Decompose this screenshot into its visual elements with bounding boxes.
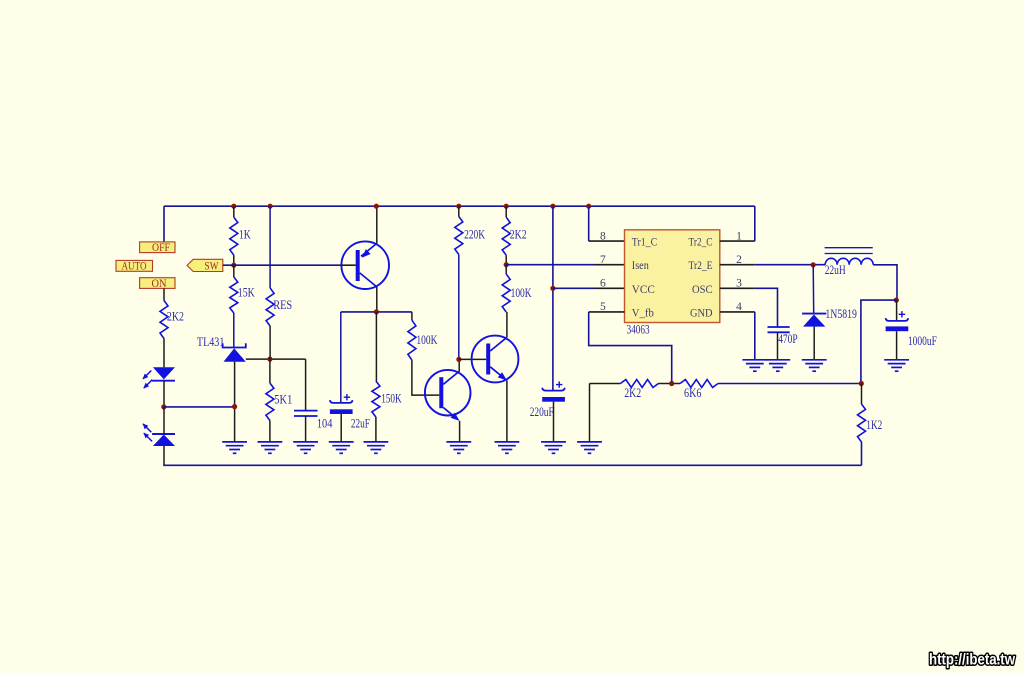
port label ON	[140, 278, 175, 289]
resistor 220K	[458, 206, 460, 216]
resistor 5K1	[269, 359, 271, 383]
junction dot Isen node	[504, 262, 509, 267]
wire Q2 collector up	[458, 359, 460, 371]
svg-text:http://ibeta.tw: http://ibeta.tw	[929, 652, 1016, 669]
wire node to D2	[163, 407, 165, 434]
wire node to Q3 base	[459, 358, 486, 360]
wire Q3 collector up	[506, 312, 508, 337]
resistor RES	[266, 288, 274, 326]
wire diode node down	[812, 265, 815, 314]
ground Q3	[495, 441, 520, 443]
wire D2 to bottom rail	[163, 446, 165, 465]
wire pin 6 stub	[595, 287, 625, 289]
svg-text:ON: ON	[152, 278, 168, 290]
svg-text:RES: RES	[273, 297, 292, 312]
ground 5K1	[258, 441, 283, 443]
svg-text:15K: 15K	[238, 285, 255, 300]
ground 1N5819	[802, 359, 827, 361]
inductor 22uH core	[825, 247, 873, 249]
capacitor 220uF (polarized)	[542, 388, 565, 391]
wire output node to feedback branch	[861, 300, 896, 383]
inductor 22uH coil	[825, 258, 873, 265]
junction dot ref/5K1 node	[267, 357, 272, 362]
wire pin 2 stub	[720, 264, 755, 266]
wire pin 1 to top rail	[754, 206, 756, 241]
svg-text:5K1: 5K1	[274, 391, 292, 406]
wire inductor to output node	[873, 265, 897, 300]
svg-text:OSC: OSC	[692, 282, 713, 296]
wire Isen node to pin 7	[506, 264, 594, 266]
wire TL431 ref	[246, 358, 306, 360]
wire VCC node to pin 6	[553, 287, 595, 289]
wire Q1 collector down	[376, 287, 378, 312]
svg-text:34063: 34063	[627, 321, 650, 336]
wire 1K2 to bottom rail	[861, 442, 863, 465]
wire Q2 emitter to ground	[459, 421, 461, 442]
wire 220uF to ground	[553, 402, 555, 442]
wire SW to Q1 base	[223, 264, 342, 266]
junction dot output node	[894, 298, 899, 303]
resistor 2K2 (top)	[505, 206, 507, 217]
port label AUTO	[116, 260, 153, 271]
wire V_fb feedback	[589, 312, 672, 384]
wire pin 3 to capacitor 470P	[755, 288, 778, 326]
junction dot Q2/Q3 node	[456, 357, 461, 362]
svg-text:1K2: 1K2	[866, 417, 882, 432]
svg-text:150K: 150K	[381, 390, 402, 405]
ground Q2	[446, 441, 471, 443]
ground 22uF	[329, 441, 354, 443]
capacitor 22uF (polarized)	[330, 400, 353, 403]
ground pin 4	[742, 359, 767, 361]
wire VCC branch down to 220uF	[552, 206, 554, 390]
wire collector node	[341, 311, 412, 313]
wire node down to 22uF	[340, 312, 342, 402]
ground divider	[577, 441, 602, 443]
wire pin 5 stub	[589, 311, 625, 313]
wire pin 3 stub	[720, 287, 755, 289]
svg-text:1K: 1K	[239, 226, 251, 241]
wire pin 4 to ground	[754, 312, 756, 360]
svg-text:OFF: OFF	[152, 242, 170, 254]
svg-text:AUTO: AUTO	[122, 261, 147, 273]
diode 1N5819	[802, 313, 826, 315]
photodiode D1 (upper LED)	[153, 367, 175, 379]
svg-text:Tr2_E: Tr2_E	[689, 258, 713, 272]
junction dot top rail at RES	[268, 204, 273, 209]
svg-text:100K: 100K	[416, 332, 437, 347]
photodiode D2 (lower LED)	[152, 433, 175, 435]
svg-text:VCC: VCC	[632, 282, 655, 296]
transistor Q1 (PNP)	[341, 241, 389, 289]
junction dot diode node	[811, 262, 816, 267]
ground 220uF	[541, 441, 566, 443]
wire ON port to resistor 2K2	[163, 288, 165, 300]
svg-text:220K: 220K	[464, 226, 485, 241]
wire Q3 emitter to ground	[506, 381, 508, 442]
ground 104	[293, 441, 318, 443]
resistor 150K	[375, 312, 377, 381]
capacitor 1000uF (polarized)	[896, 300, 898, 320]
wire divider left segment	[590, 383, 621, 385]
shunt regulator TL431	[223, 343, 246, 347]
wire 6K6 to output node	[718, 383, 861, 385]
ground 1000uF	[884, 359, 909, 361]
svg-text:1000uF: 1000uF	[908, 333, 937, 348]
junction dot top rail at Q1	[374, 204, 379, 209]
transistor Q3 (NPN)	[472, 336, 519, 383]
svg-text:220uF: 220uF	[530, 404, 554, 419]
svg-text:Tr1_C: Tr1_C	[632, 235, 658, 249]
svg-text:104: 104	[317, 415, 333, 430]
wire 2K2 to 6K6	[658, 383, 680, 385]
wire 150K to ground	[375, 417, 377, 442]
wire 1000uF to ground	[896, 331, 898, 360]
ground 470P	[765, 359, 790, 361]
svg-text:2K2: 2K2	[624, 385, 641, 400]
IC U1 34063	[625, 230, 720, 323]
resistor 1K2	[861, 384, 863, 405]
svg-text:22uF: 22uF	[351, 415, 370, 430]
wire TL431 anode down	[234, 362, 236, 442]
svg-text:6K6: 6K6	[684, 385, 702, 400]
junction dot VCC node	[550, 286, 555, 291]
wire left rail drop to OFF port	[163, 206, 165, 242]
junction dot divider node	[669, 381, 674, 386]
wire 22uF to ground	[340, 414, 342, 442]
svg-text:GND: GND	[690, 305, 713, 319]
junction dot TL431 anode node	[232, 404, 237, 409]
wire Q1 emitter to top rail	[376, 206, 378, 243]
resistor 2K2 (divider)	[620, 380, 658, 388]
svg-text:SW: SW	[205, 260, 219, 272]
svg-text:6: 6	[600, 278, 606, 290]
svg-text:470P: 470P	[778, 331, 798, 346]
transistor Q2 (NPN)	[425, 370, 471, 416]
junction dot top rail at 220K	[456, 204, 461, 209]
capacitor 470P	[768, 326, 790, 328]
port label OFF	[140, 242, 175, 253]
svg-text:Isen: Isen	[632, 258, 649, 272]
junction dot SW node	[231, 263, 236, 268]
svg-text:1N5819: 1N5819	[825, 306, 857, 321]
junction dot LED node	[161, 404, 166, 409]
wire pin 4 stub	[720, 311, 755, 313]
wire 1N5819 to ground	[813, 327, 815, 360]
resistor 2K2 (left branch)	[160, 301, 168, 339]
wire ref to capacitor 104	[305, 359, 307, 410]
wire 100K to Q2 base	[412, 360, 439, 395]
svg-text:100K: 100K	[511, 285, 532, 300]
svg-text:8: 8	[600, 230, 606, 242]
resistor 6K6	[680, 380, 718, 388]
ground 150K	[364, 441, 389, 443]
wire rail to pin 8	[588, 206, 590, 241]
junction dot top rail at pin 8 branch	[586, 204, 591, 209]
wire 15K to TL431 cathode	[233, 313, 235, 348]
svg-text:2K2: 2K2	[510, 226, 527, 241]
wire rail to RES	[269, 206, 271, 288]
ground TL431	[222, 441, 247, 443]
svg-text:22uH: 22uH	[825, 262, 846, 277]
wire bottom return rail	[163, 464, 861, 466]
wire 470P to ground	[777, 332, 779, 360]
wire 220K down to Q2/Q3 node	[458, 255, 460, 360]
wire 104 to ground	[305, 416, 307, 442]
svg-text:2K2: 2K2	[167, 309, 184, 324]
junction dot top rail at VCC branch	[550, 204, 555, 209]
wire D1 to node	[163, 381, 165, 407]
wire LED node to TL431 anode	[164, 406, 235, 408]
resistor 100K (Isen)	[505, 265, 507, 274]
junction dot top rail at 1K	[231, 204, 236, 209]
svg-text:Tr2_C: Tr2_C	[689, 235, 713, 249]
resistor 100K (Q2 base)	[411, 312, 413, 320]
port label SW	[187, 259, 223, 271]
resistor 15K	[233, 265, 235, 277]
wire pin 1 stub	[720, 240, 755, 242]
resistor 1K	[233, 206, 235, 217]
junction dot top rail at 2K2	[504, 204, 509, 209]
wire ground to 2K2 divider	[589, 384, 591, 442]
wire pin 7 stub	[595, 264, 625, 266]
junction dot node at 150K	[374, 309, 379, 314]
capacitor 104	[294, 410, 318, 412]
wire 2K2 to photodiode D1	[163, 339, 165, 368]
svg-text:7: 7	[600, 254, 606, 266]
wire top power rail	[164, 205, 755, 207]
wire 5K1 to ground	[269, 421, 271, 442]
svg-text:V_fb: V_fb	[632, 305, 654, 319]
junction dot feedback/output node	[859, 381, 864, 386]
svg-text:TL431: TL431	[197, 334, 225, 349]
wire pin 2 to inductor	[755, 264, 825, 266]
